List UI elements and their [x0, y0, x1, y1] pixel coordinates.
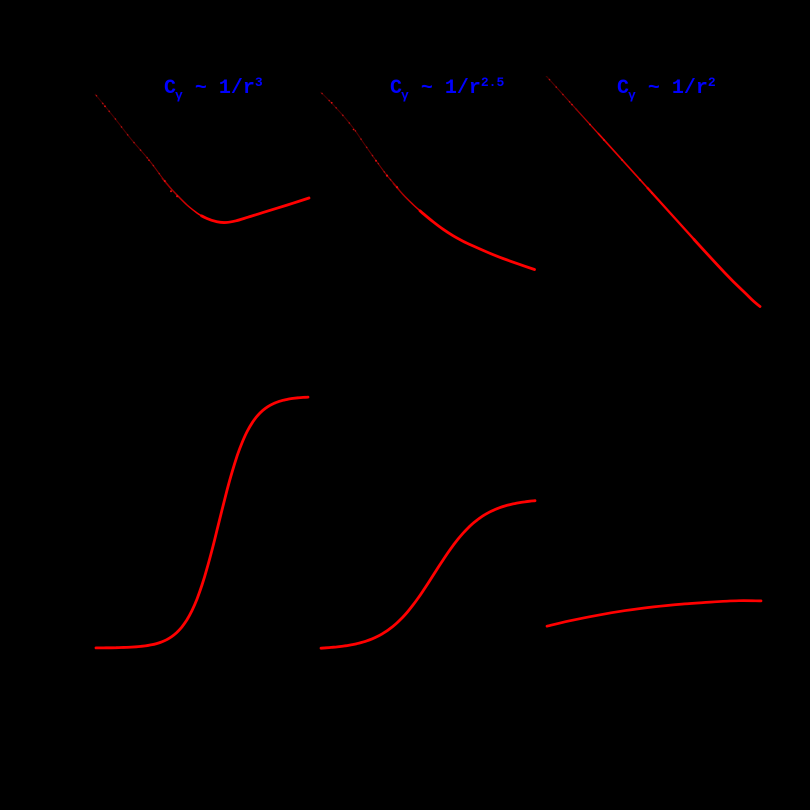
curve panel1 bottom sigmoid: [96, 397, 308, 648]
label panel3: [617, 73, 716, 106]
curve panel2 top bright: [420, 211, 535, 270]
curve panel3 top medium3: [647, 187, 697, 242]
curve panel1 top bright: [202, 198, 310, 223]
speck dots on faint segments: [104, 102, 653, 197]
curve panel1 top faint dots: [96, 95, 170, 187]
curve panel2 bottom sigmoid: [321, 501, 535, 649]
curve panel3 bottom: [547, 601, 761, 627]
curve panel2 top medium: [393, 183, 423, 214]
curve panel3 top bright: [694, 239, 760, 306]
curve panel2 top faint: [321, 92, 399, 190]
curve panel3 top faint dots: [549, 79, 582, 116]
curve panel3 top medium: [576, 109, 601, 137]
curve panel2 top faint dots: [322, 93, 399, 189]
curve panel1 top medium: [162, 178, 206, 218]
curve panel1 top faint: [95, 94, 170, 188]
curve panel3 top faint: [546, 77, 582, 116]
label panel1: [164, 73, 263, 106]
label panel2: [390, 73, 504, 106]
curve panel3 top medium2: [598, 133, 650, 191]
